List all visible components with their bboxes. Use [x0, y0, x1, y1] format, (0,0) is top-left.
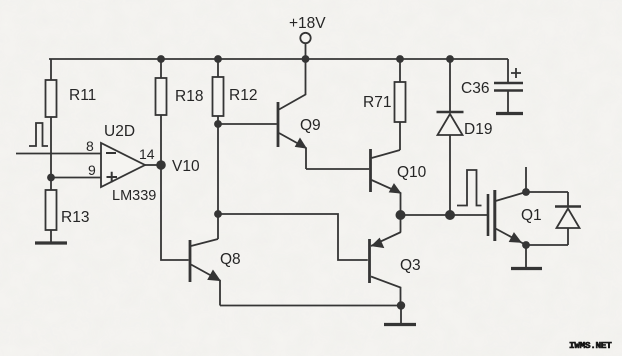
svg-text:+18V: +18V [289, 15, 326, 32]
resistor R12 [213, 59, 224, 124]
ground below Q1 [511, 267, 542, 270]
svg-text:LM339: LM339 [112, 188, 156, 204]
svg-text:R71: R71 [363, 94, 391, 111]
resistor R18 [156, 59, 167, 165]
node rail-R18 [157, 55, 165, 63]
wire Q8 collector node line [218, 214, 368, 260]
svg-text:9: 9 [88, 162, 96, 178]
node V10 [156, 160, 166, 170]
wire top +18V rail [49, 58, 508, 60]
node rail +18V/Q9 [302, 55, 310, 63]
svg-text:V10: V10 [172, 158, 200, 175]
op-amp minus sign [106, 152, 116, 154]
resistor R11 [46, 59, 57, 177]
Q1 emitter arrowhead [510, 233, 522, 242]
transistor Q9 [278, 59, 306, 169]
wire +18V drop to rail [305, 44, 307, 60]
svg-text:Q3: Q3 [400, 257, 421, 274]
diode D19 [437, 59, 464, 215]
svg-text:IWMS.NET: IWMS.NET [569, 340, 612, 351]
node Q1 collector [522, 188, 530, 196]
wire op-amp output to V10 node [145, 164, 161, 166]
op-amp plus sign [107, 172, 118, 182]
wire node to pin 9 [51, 177, 101, 179]
Q3 emitter arrowhead (PNP, pointing into bar) [372, 239, 384, 248]
node rail-D19 [446, 55, 454, 63]
input pulse symbol left [29, 123, 48, 146]
wire R12 node down to Q8 collector node [217, 124, 219, 239]
transistor Q3 [370, 232, 402, 306]
ground below Q3/Q8 node [384, 306, 416, 325]
svg-text:D19: D19 [464, 121, 492, 138]
wire R12 bottom to Q9 base [218, 123, 277, 125]
wire input to pin 8 [16, 153, 101, 155]
transistor Q8 [190, 239, 220, 306]
svg-text:R13: R13 [61, 209, 89, 226]
resistor R71 [395, 59, 406, 150]
Q9 emitter arrowhead [296, 139, 307, 149]
wire V10 node down to Q8 base [161, 165, 189, 260]
resistor R13 [46, 178, 57, 243]
node R12-Q9 base [214, 120, 222, 128]
node rail-R71 [396, 55, 404, 63]
svg-text:U2D: U2D [104, 123, 135, 140]
capacitor C36 [494, 59, 523, 112]
node Q3 collector ground [397, 301, 405, 309]
svg-text:R11: R11 [69, 87, 96, 104]
transistor Q10 [371, 149, 401, 232]
input pulse symbol at Q1 gate [457, 170, 482, 206]
svg-text:R12: R12 [229, 87, 257, 104]
node R11/R13/pin9 [47, 174, 55, 182]
op-amp U2D triangle [101, 143, 145, 187]
svg-text:8: 8 [86, 138, 94, 154]
svg-text:Q8: Q8 [220, 251, 241, 268]
node Q10 emitter / Q3 emitter [396, 210, 406, 220]
Q8 emitter arrowhead [208, 271, 220, 281]
svg-text:14: 14 [139, 146, 155, 162]
svg-text:Q10: Q10 [397, 164, 427, 181]
transistor Q1 (IGBT) [488, 167, 526, 267]
Q10 emitter arrowhead [390, 184, 401, 193]
wire Q8 emitter bottom line to ground node [220, 305, 401, 307]
svg-text:R18: R18 [175, 88, 203, 105]
svg-text:Q1: Q1 [521, 207, 542, 224]
ground below C36 [496, 112, 523, 115]
wire Q10 emitter node to Q1 gate [401, 214, 488, 216]
node rail-R12 [214, 55, 222, 63]
freewheel diode across Q1 [526, 192, 581, 245]
ground below R13 [35, 241, 67, 244]
wire Q9 emitter to Q10 base [306, 168, 369, 170]
node Q1 emitter [522, 241, 530, 249]
svg-text:Q9: Q9 [300, 117, 321, 134]
svg-text:C36: C36 [461, 80, 489, 97]
node Q8 collector [214, 210, 222, 218]
node D19-gate line [445, 210, 455, 220]
+18V terminal [300, 33, 310, 43]
